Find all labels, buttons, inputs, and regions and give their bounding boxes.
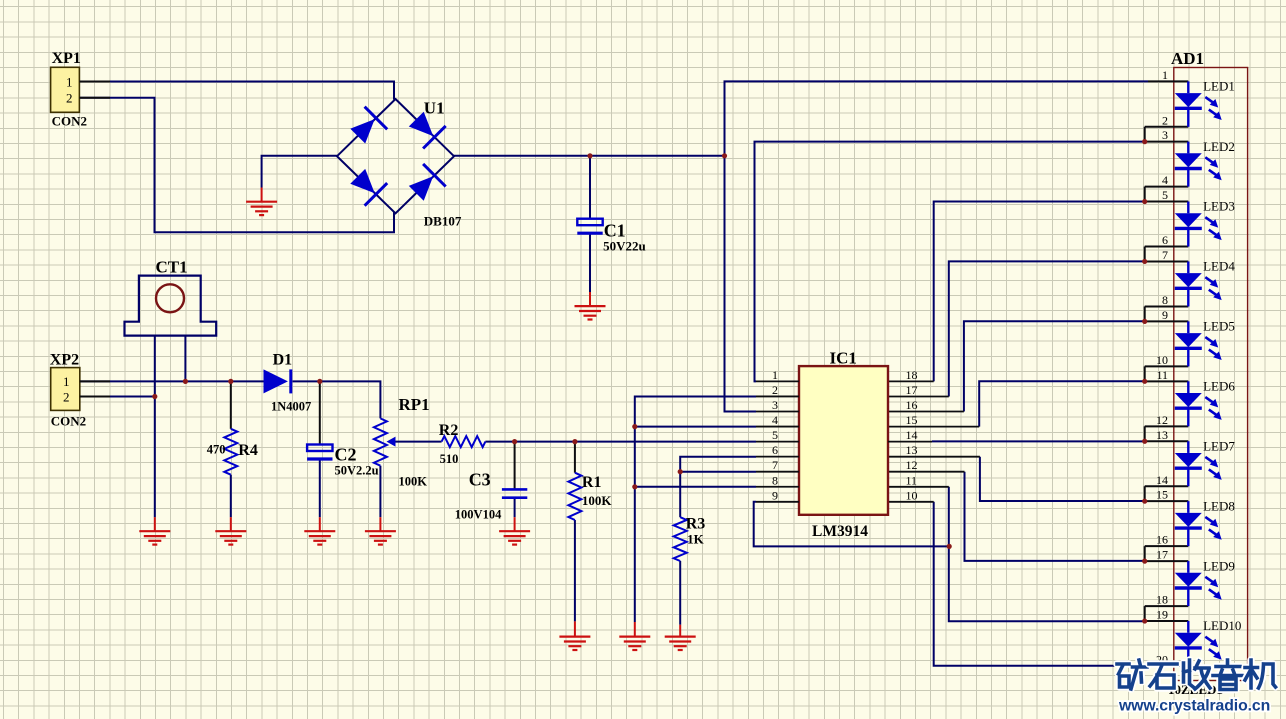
svg-text:12: 12 <box>906 458 918 472</box>
svg-text:14: 14 <box>906 428 918 442</box>
svg-text:C3: C3 <box>469 470 491 490</box>
svg-text:LED7: LED7 <box>1203 438 1235 453</box>
svg-text:C1: C1 <box>604 221 626 241</box>
svg-text:15: 15 <box>906 413 918 427</box>
svg-text:3: 3 <box>772 398 778 412</box>
svg-text:R1: R1 <box>582 474 602 491</box>
svg-text:13: 13 <box>1156 428 1168 442</box>
svg-text:5: 5 <box>772 428 778 442</box>
svg-text:7: 7 <box>1162 248 1168 262</box>
svg-text:12: 12 <box>1156 413 1168 427</box>
svg-text:13: 13 <box>906 443 918 457</box>
svg-text:9: 9 <box>1162 308 1168 322</box>
svg-text:9: 9 <box>772 488 778 502</box>
svg-text:6: 6 <box>772 443 778 457</box>
svg-text:14: 14 <box>1156 473 1168 487</box>
svg-text:2: 2 <box>63 390 70 405</box>
svg-text:1K: 1K <box>687 532 705 547</box>
svg-text:IC1: IC1 <box>830 348 857 367</box>
svg-text:LED5: LED5 <box>1203 319 1235 334</box>
svg-text:7: 7 <box>772 458 778 472</box>
svg-text:XP1: XP1 <box>52 50 81 67</box>
svg-text:50V2.2u: 50V2.2u <box>335 464 379 478</box>
svg-text:10: 10 <box>906 488 918 502</box>
svg-text:6: 6 <box>1162 233 1168 247</box>
svg-text:4: 4 <box>772 413 778 427</box>
svg-text:U1: U1 <box>424 99 445 118</box>
svg-text:D1: D1 <box>273 352 293 369</box>
svg-text:100K: 100K <box>582 493 613 508</box>
svg-text:16: 16 <box>1156 533 1168 547</box>
svg-text:3: 3 <box>1162 128 1168 142</box>
svg-text:10: 10 <box>1156 353 1168 367</box>
svg-text:15: 15 <box>1156 488 1168 502</box>
svg-text:LED1: LED1 <box>1203 79 1235 94</box>
svg-text:CON2: CON2 <box>52 114 87 129</box>
svg-text:1: 1 <box>63 374 70 389</box>
svg-text:LM3914: LM3914 <box>812 523 868 540</box>
svg-text:DB107: DB107 <box>424 214 462 229</box>
svg-text:2: 2 <box>1162 113 1168 127</box>
svg-text:1: 1 <box>66 75 73 90</box>
svg-text:XP2: XP2 <box>50 352 79 369</box>
svg-text:LED3: LED3 <box>1203 199 1235 214</box>
svg-text:LED10: LED10 <box>1203 618 1241 633</box>
svg-text:50V22u: 50V22u <box>603 239 646 254</box>
svg-text:1: 1 <box>772 368 778 382</box>
svg-text:17: 17 <box>1156 548 1168 562</box>
svg-text:CT1: CT1 <box>156 258 188 277</box>
svg-text:100V104: 100V104 <box>455 508 502 522</box>
svg-text:LED6: LED6 <box>1203 379 1235 394</box>
svg-text:2: 2 <box>772 383 778 397</box>
svg-text:4: 4 <box>1162 173 1168 187</box>
svg-text:2: 2 <box>66 91 73 106</box>
svg-text:C2: C2 <box>335 445 357 465</box>
svg-text:R4: R4 <box>238 442 258 459</box>
svg-text:8: 8 <box>1162 293 1168 307</box>
svg-text:AD1: AD1 <box>1171 49 1204 68</box>
svg-text:LED8: LED8 <box>1203 498 1235 513</box>
svg-text:18: 18 <box>1156 593 1168 607</box>
svg-text:11: 11 <box>906 473 918 487</box>
svg-text:www.crystalradio.cn: www.crystalradio.cn <box>1118 698 1270 715</box>
svg-text:RP1: RP1 <box>399 395 430 414</box>
svg-text:1N4007: 1N4007 <box>271 399 311 413</box>
svg-text:R3: R3 <box>686 516 706 533</box>
svg-text:8: 8 <box>772 473 778 487</box>
svg-text:LED2: LED2 <box>1203 139 1235 154</box>
svg-text:1: 1 <box>1162 68 1168 82</box>
svg-text:5: 5 <box>1162 188 1168 202</box>
svg-text:LED9: LED9 <box>1203 558 1235 573</box>
svg-text:510: 510 <box>440 452 459 466</box>
svg-text:16: 16 <box>906 398 918 412</box>
svg-text:470: 470 <box>207 443 226 457</box>
svg-text:CON2: CON2 <box>51 414 86 429</box>
svg-text:11: 11 <box>1156 368 1168 382</box>
svg-text:19: 19 <box>1156 608 1168 622</box>
svg-text:100K: 100K <box>399 475 428 489</box>
svg-text:17: 17 <box>906 383 918 397</box>
svg-text:18: 18 <box>906 368 918 382</box>
svg-text:R2: R2 <box>439 422 459 439</box>
svg-text:LED4: LED4 <box>1203 259 1235 274</box>
